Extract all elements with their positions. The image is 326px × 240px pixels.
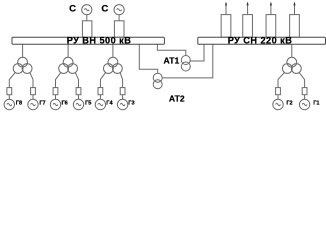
wire source S2 to bus: [118, 15, 120, 21]
svg-text:Г2: Г2: [286, 101, 292, 107]
arrowhead of line W2: [247, 2, 249, 6]
wire busbar to transformer T1: [22, 44, 24, 57]
svg-text:Г8: Г8: [16, 101, 22, 107]
transformer T2 (three-winding): [59, 57, 78, 73]
wire transformer branch to generator Г3: [120, 72, 123, 87]
breaker box of generator Г8: [7, 88, 12, 95]
wire source S1 to bus: [86, 15, 88, 21]
breaker box of generator Г4: [98, 88, 103, 95]
source (system) С1 symbol: [82, 5, 92, 15]
wire outgoing line W3 (220 kV): [270, 3, 272, 15]
wire AT1 MV lead to 220kV busbar: [190, 44, 204, 61]
generator Г3: [117, 99, 127, 109]
generator Г5: [73, 99, 83, 109]
busbar РУ СН 220 кВ: [198, 37, 326, 44]
wire transformer branch to generator Г4: [100, 72, 105, 87]
svg-text:Г3: Г3: [128, 101, 134, 107]
autotransformer AT2: [153, 73, 162, 89]
transformer T1 (three-winding): [13, 57, 32, 73]
wire AT2 MV lead to 220kV busbar: [162, 44, 213, 78]
breaker box of line W3: [266, 15, 276, 38]
wire outgoing line W1 (220 kV): [225, 3, 227, 15]
svg-text:Г7: Г7: [39, 101, 45, 107]
autotransformer AT1: [181, 56, 190, 72]
wire transformer branch to generator Г8: [9, 72, 15, 87]
transformer T3 (three-winding): [104, 57, 123, 73]
generator Г6: [50, 99, 60, 109]
breaker box of generator Г6: [53, 88, 58, 95]
wire busbar to transformer T4: [291, 44, 293, 57]
breaker box of generator Г2: [276, 88, 281, 95]
wire outgoing line W4 (220 kV): [294, 3, 296, 15]
svg-text:РУ СН 220 кВ: РУ СН 220 кВ: [228, 36, 293, 46]
generator Г8: [4, 99, 14, 109]
svg-text:Г5: Г5: [85, 101, 91, 107]
generator Г4: [95, 99, 105, 109]
wire AT2 HV lead from 500kV busbar: [139, 44, 157, 73]
svg-text:С: С: [69, 4, 76, 15]
breaker box of line W1: [221, 15, 231, 38]
wire transformer branch to generator Г6: [56, 72, 62, 87]
wire breaker to generator Г1: [304, 95, 306, 100]
wire breaker to generator Г7: [32, 95, 34, 100]
wire transformer branch to generator Г2: [278, 72, 285, 87]
arrowhead of line W1: [225, 2, 227, 6]
transformer T4 (three-winding): [282, 57, 301, 73]
breaker box of generator Г5: [76, 88, 81, 95]
wire transformer branch to generator Г7: [30, 72, 33, 87]
svg-text:РУ ВН 500 кВ: РУ ВН 500 кВ: [67, 36, 132, 46]
breaker box of generator Г3: [120, 88, 125, 95]
breaker box of source S1: [82, 21, 92, 38]
generator Г1: [299, 99, 309, 109]
breaker box of generator Г1: [302, 88, 307, 95]
busbar РУ ВН 500 кВ: [12, 37, 164, 44]
arrowhead of line W4: [293, 2, 295, 6]
svg-text:Г6: Г6: [62, 101, 68, 107]
wire busbar to transformer T2: [67, 44, 69, 57]
svg-text:С: С: [101, 4, 108, 15]
source (system) С2 symbol: [114, 5, 124, 15]
svg-text:АТ1: АТ1: [164, 55, 180, 65]
breaker box of line W4: [290, 15, 300, 38]
wire breaker to generator Г5: [78, 95, 80, 100]
svg-text:Г1: Г1: [313, 101, 319, 107]
breaker box of generator Г7: [31, 88, 36, 95]
wire AT1 HV lead from 500kV busbar: [157, 44, 185, 55]
wire breaker to generator Г2: [277, 95, 279, 100]
wire breaker to generator Г4: [99, 95, 101, 100]
wire breaker to generator Г8: [8, 95, 10, 100]
svg-text:АТ2: АТ2: [169, 94, 185, 104]
generator Г7: [28, 99, 38, 109]
wire transformer branch to generator Г5: [75, 72, 78, 87]
wire transformer branch to generator Г1: [299, 72, 305, 87]
generator Г2: [273, 99, 283, 109]
arrowhead of line W3: [270, 2, 272, 6]
wire busbar to transformer T3: [112, 44, 114, 57]
svg-text:Г4: Г4: [106, 101, 113, 107]
wire breaker to generator Г3: [122, 95, 124, 100]
wire breaker to generator Г6: [55, 95, 57, 100]
breaker box of source S2: [114, 21, 124, 38]
breaker box of line W2: [243, 15, 253, 38]
wire outgoing line W2 (220 kV): [247, 3, 249, 15]
